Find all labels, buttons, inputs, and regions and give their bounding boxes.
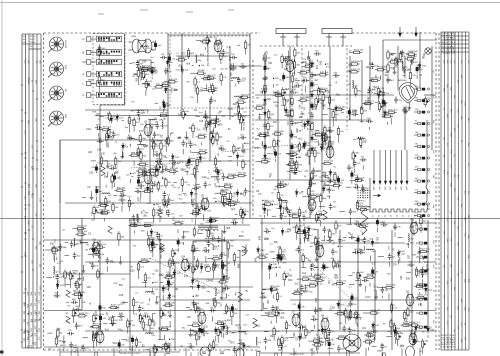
capacitor C91 xyxy=(321,136,325,143)
svg-text:27k: 27k xyxy=(234,218,237,220)
svg-text:1M: 1M xyxy=(23,331,25,334)
resistor R239 xyxy=(76,315,87,317)
svg-text:V14: V14 xyxy=(181,257,186,259)
wire xyxy=(234,84,236,86)
electrolytic capacitor C126 xyxy=(210,216,212,225)
svg-text:C66: C66 xyxy=(187,53,192,55)
wire xyxy=(353,138,356,140)
capacitor C95 xyxy=(317,213,324,217)
svg-text:R152 8n2: R152 8n2 xyxy=(388,109,398,111)
capacitor C15 xyxy=(230,67,237,71)
wire xyxy=(200,142,202,145)
wire xyxy=(140,188,142,190)
svg-text:L48: L48 xyxy=(106,118,109,120)
capacitor C29 xyxy=(95,126,102,130)
resistor R287 xyxy=(409,324,420,326)
resistor R232 xyxy=(365,276,376,278)
svg-text:100: 100 xyxy=(258,133,263,136)
resistor R16 xyxy=(166,81,177,83)
coil L7 xyxy=(234,96,242,97)
wire xyxy=(167,311,169,314)
resistor R142 xyxy=(257,134,268,136)
capacitor C214 xyxy=(347,314,351,321)
wire xyxy=(137,79,139,85)
wire xyxy=(214,265,218,267)
node xyxy=(292,123,293,124)
wire xyxy=(63,335,65,339)
resistor R7 xyxy=(196,86,198,97)
capacitor C219 xyxy=(337,345,341,352)
wire xyxy=(391,52,397,54)
resistor R53 xyxy=(128,198,130,209)
wire xyxy=(273,101,279,103)
wire xyxy=(121,206,123,212)
wire xyxy=(238,122,240,124)
electrolytic capacitor C102 xyxy=(348,108,350,117)
tube V9 xyxy=(406,293,414,308)
svg-text:1M: 1M xyxy=(304,210,306,213)
wire xyxy=(301,333,303,338)
wire xyxy=(419,292,421,295)
wire xyxy=(223,313,226,315)
svg-text:8n2: 8n2 xyxy=(228,57,231,62)
node xyxy=(193,296,194,297)
wire xyxy=(397,46,399,90)
contact group xyxy=(416,228,427,230)
potentiometer R258 xyxy=(72,308,77,319)
svg-text:L71: L71 xyxy=(191,219,193,222)
wire xyxy=(162,165,164,169)
wire xyxy=(319,143,324,145)
wire xyxy=(307,128,309,131)
wire xyxy=(419,258,421,263)
capacitor C141 xyxy=(321,266,328,270)
resistor R188 xyxy=(169,258,171,269)
wire xyxy=(169,345,171,352)
svg-text:B5 Ch: B5 Ch xyxy=(30,36,36,38)
node xyxy=(276,267,277,268)
resistor R122 xyxy=(323,133,325,144)
top right unit outline xyxy=(383,40,437,118)
wire xyxy=(158,338,164,340)
svg-text:220: 220 xyxy=(294,337,297,342)
capacitor C70 xyxy=(329,203,333,210)
wire xyxy=(289,219,291,225)
wire xyxy=(369,341,371,345)
diode D14 xyxy=(116,114,119,122)
svg-text:S37: S37 xyxy=(178,114,183,117)
wire xyxy=(60,344,66,346)
resistor R11 xyxy=(235,101,246,103)
wire xyxy=(128,126,130,133)
resistor R85 xyxy=(165,177,167,188)
svg-text:0,1: 0,1 xyxy=(123,143,127,146)
electrolytic capacitor C40 xyxy=(96,186,98,195)
diode D27 xyxy=(279,204,282,212)
wire xyxy=(138,225,142,227)
ledger header text xyxy=(23,36,36,48)
wire xyxy=(324,181,326,187)
resistor R210 xyxy=(306,230,308,241)
resistor R257 xyxy=(90,326,101,328)
wire xyxy=(317,140,319,146)
wire xyxy=(155,102,158,104)
wire xyxy=(419,247,421,251)
resistor R156 xyxy=(349,63,360,65)
wire xyxy=(376,228,378,233)
wire xyxy=(93,255,95,258)
wire xyxy=(314,159,316,163)
svg-text:220: 220 xyxy=(273,91,278,94)
svg-text:5k6: 5k6 xyxy=(326,136,331,139)
svg-text:R114 330: R114 330 xyxy=(336,106,346,108)
comb pin labels xyxy=(371,215,421,218)
svg-text:L45: L45 xyxy=(390,320,394,325)
contact group xyxy=(414,134,430,136)
resistor R106 xyxy=(293,59,295,70)
resistor R45 xyxy=(137,163,148,165)
waveform zigzag xyxy=(253,318,257,328)
wire xyxy=(70,282,72,288)
diode D11 xyxy=(217,169,220,177)
wire xyxy=(142,170,144,176)
wire xyxy=(118,350,120,353)
wire xyxy=(164,81,166,83)
resistor R105 xyxy=(309,178,311,189)
wire xyxy=(168,34,250,36)
wire xyxy=(111,185,113,189)
wire xyxy=(190,285,193,287)
wire xyxy=(304,285,306,287)
capacitor C18 xyxy=(137,184,144,188)
wire xyxy=(262,303,264,309)
svg-text:L13: L13 xyxy=(312,133,317,136)
resistor R127 xyxy=(331,184,342,186)
capacitor C211 xyxy=(264,337,268,344)
contact group xyxy=(414,122,430,124)
wire xyxy=(148,298,150,301)
coil L26 xyxy=(53,266,54,274)
wire xyxy=(361,116,363,123)
svg-text:100: 100 xyxy=(197,352,199,356)
electrolytic capacitor C161 xyxy=(357,235,359,244)
svg-text:220: 220 xyxy=(240,193,245,196)
resistor R79 xyxy=(160,151,162,162)
wire xyxy=(308,197,310,204)
svg-text:1n5: 1n5 xyxy=(294,283,299,286)
wire xyxy=(197,250,200,252)
wire xyxy=(219,185,222,187)
wire xyxy=(316,253,318,257)
wire xyxy=(57,291,59,298)
wire xyxy=(209,354,211,356)
wire xyxy=(183,193,186,195)
electrolytic capacitor C2 xyxy=(154,40,156,49)
dashed border bottom xyxy=(44,349,261,351)
svg-text:1k2: 1k2 xyxy=(114,167,119,170)
diode D55 xyxy=(264,110,267,118)
wire xyxy=(71,278,74,280)
wire xyxy=(150,238,155,240)
wire xyxy=(187,81,190,83)
resistor R189 xyxy=(207,220,218,222)
wire xyxy=(290,129,292,133)
contact group xyxy=(414,111,430,113)
wire xyxy=(197,233,203,235)
resistor R169 xyxy=(94,246,105,248)
resistor R13 xyxy=(239,96,250,98)
wire xyxy=(184,231,189,233)
diode D31 xyxy=(173,269,176,277)
svg-text:R56 5k6: R56 5k6 xyxy=(160,113,169,115)
wire xyxy=(168,302,170,307)
resistor R171 xyxy=(118,231,120,242)
capacitor C79 xyxy=(309,180,313,187)
resistor R69 xyxy=(140,151,142,162)
svg-text:R216 100: R216 100 xyxy=(316,277,326,279)
wire xyxy=(238,115,240,118)
resistor R61 xyxy=(157,181,159,192)
wire xyxy=(112,174,114,176)
coil L10 xyxy=(162,121,163,129)
resistor R47 xyxy=(148,170,159,172)
wire xyxy=(81,218,83,310)
wire xyxy=(310,279,314,281)
wire xyxy=(152,312,156,314)
coil L29 xyxy=(277,255,285,256)
coil L20 xyxy=(402,61,403,69)
wire xyxy=(168,64,170,68)
capacitor C57 xyxy=(219,147,226,151)
wire xyxy=(164,156,167,158)
resistor R260 xyxy=(225,304,227,315)
capacitor C22 xyxy=(127,136,134,140)
wire xyxy=(281,65,283,69)
capacitor C199 xyxy=(220,322,224,329)
resistor R4 xyxy=(146,69,157,71)
electrolytic capacitor C150 xyxy=(269,263,271,272)
potentiometer R213 xyxy=(283,271,288,282)
diode D44 xyxy=(397,250,400,258)
diode D15 xyxy=(190,190,193,198)
ground xyxy=(150,318,154,323)
wire xyxy=(394,232,396,237)
diode D39 xyxy=(307,225,310,233)
capacitor C155 xyxy=(260,295,267,299)
capacitor C8 xyxy=(181,67,185,74)
ground xyxy=(374,295,378,300)
capacitor C74 xyxy=(279,181,283,188)
svg-text:12k: 12k xyxy=(415,86,418,88)
diode D18 xyxy=(335,105,338,113)
wire xyxy=(148,169,151,171)
wire xyxy=(129,218,131,350)
wire xyxy=(149,328,151,335)
node xyxy=(213,248,214,249)
potentiometer R77 xyxy=(182,109,187,120)
capacitor C216 xyxy=(371,329,378,333)
coil L16 xyxy=(149,119,157,120)
diode D24 xyxy=(295,189,298,197)
node xyxy=(152,282,153,283)
wire xyxy=(112,316,115,318)
capacitor C116 xyxy=(55,274,59,281)
coil L6 xyxy=(231,78,239,79)
wire xyxy=(192,209,194,214)
wire xyxy=(264,56,266,161)
svg-text:6k8: 6k8 xyxy=(381,99,384,104)
wire xyxy=(143,76,145,79)
wire xyxy=(322,114,328,116)
wire xyxy=(160,255,162,259)
wire xyxy=(405,106,407,110)
coil L34 xyxy=(92,331,93,339)
capacitor C83 xyxy=(294,84,301,88)
wire xyxy=(245,51,247,55)
wire xyxy=(302,264,304,268)
tube V11 xyxy=(326,145,334,160)
line output unit edges xyxy=(370,120,428,209)
resistor R65 xyxy=(105,196,107,207)
diode D3 xyxy=(188,263,191,271)
resistor R50 xyxy=(114,189,125,191)
svg-text:10k: 10k xyxy=(306,57,308,60)
svg-text:R200 39p: R200 39p xyxy=(166,275,176,277)
capacitor C115 xyxy=(59,244,63,251)
capacitor C103 xyxy=(351,113,358,117)
svg-text:2n2: 2n2 xyxy=(313,106,318,109)
wire xyxy=(158,213,163,215)
wire xyxy=(95,332,97,336)
potentiometer R72 xyxy=(242,209,247,220)
tube V2 xyxy=(286,59,294,74)
wire xyxy=(140,191,142,198)
resistor R99 xyxy=(294,47,296,58)
svg-text:5k6: 5k6 xyxy=(309,291,312,293)
resistor R73 xyxy=(142,190,153,192)
wire xyxy=(45,249,49,251)
wire xyxy=(220,304,222,307)
wire xyxy=(93,216,95,219)
wire xyxy=(272,215,276,217)
wire xyxy=(157,173,159,175)
pin strip B xyxy=(97,50,122,56)
coil L25 xyxy=(74,238,75,246)
resistor R148 xyxy=(375,69,386,71)
svg-text:R288 100: R288 100 xyxy=(339,335,349,337)
diode D34 xyxy=(150,228,153,236)
svg-text:R230 27k: R230 27k xyxy=(417,284,427,286)
capacitor C176 xyxy=(69,342,73,349)
diode D22 xyxy=(329,169,332,177)
wire xyxy=(82,265,84,269)
capacitor C241 xyxy=(377,92,381,99)
wire xyxy=(165,146,167,151)
resistor R195 xyxy=(227,240,229,251)
diode D61 xyxy=(311,134,314,142)
wire xyxy=(349,310,351,317)
svg-text:B20: B20 xyxy=(288,280,293,282)
wire xyxy=(325,185,331,187)
resistor R2 xyxy=(194,76,196,87)
svg-text:1M: 1M xyxy=(415,97,418,99)
wire xyxy=(195,115,199,117)
wire xyxy=(64,255,69,257)
resistor R209 xyxy=(302,253,304,264)
bridge circle xyxy=(205,266,211,272)
wire xyxy=(289,46,291,180)
resistor R193 xyxy=(213,262,215,273)
svg-text:4μ7: 4μ7 xyxy=(212,302,215,307)
resistor R88 xyxy=(129,154,140,156)
svg-text:220: 220 xyxy=(269,118,272,120)
wire xyxy=(215,264,217,267)
wire xyxy=(314,229,318,231)
wire xyxy=(309,189,311,195)
svg-text:12k: 12k xyxy=(62,229,65,231)
resistor R191 xyxy=(147,236,149,247)
resistor R215 xyxy=(257,256,268,258)
svg-text:1M: 1M xyxy=(267,135,270,137)
wire xyxy=(174,262,176,350)
node xyxy=(399,251,400,252)
tube V17 xyxy=(316,244,324,259)
ground xyxy=(155,300,159,305)
diode D28 xyxy=(418,62,421,70)
node xyxy=(153,204,154,205)
wire xyxy=(381,352,383,356)
svg-text:L95: L95 xyxy=(97,147,102,151)
capacitor C65 xyxy=(222,174,226,181)
svg-text:L89: L89 xyxy=(103,212,108,216)
svg-text:C95: C95 xyxy=(200,87,203,92)
left margin ledger lines xyxy=(22,34,41,348)
electrolytic capacitor C223 xyxy=(264,63,266,72)
resistor R275 xyxy=(312,344,323,346)
svg-text:56k: 56k xyxy=(415,143,418,145)
wire xyxy=(133,128,135,132)
resistor R86 xyxy=(216,132,218,143)
capacitor C47 xyxy=(189,141,193,148)
node xyxy=(159,327,160,328)
wire xyxy=(142,282,147,284)
diode D10 xyxy=(171,153,174,161)
wire xyxy=(360,120,364,122)
wire xyxy=(240,125,242,130)
wire xyxy=(145,174,149,176)
wire xyxy=(53,256,55,263)
diode D45 xyxy=(214,326,217,334)
pin strip U xyxy=(97,92,122,98)
wire xyxy=(328,350,330,356)
wire xyxy=(194,207,198,209)
resistor R254 xyxy=(190,324,201,326)
wire xyxy=(173,169,175,175)
svg-text:56k: 56k xyxy=(281,181,284,183)
ground xyxy=(106,164,110,169)
capacitor C10 xyxy=(230,56,237,60)
wire xyxy=(159,245,161,250)
wire xyxy=(211,316,213,322)
resistor R52 xyxy=(109,111,111,122)
connector plug N xyxy=(87,37,91,41)
capacitor C167 xyxy=(358,251,365,255)
resistor R78 xyxy=(112,202,114,213)
wire xyxy=(356,184,358,189)
wire xyxy=(301,266,306,268)
wire xyxy=(263,307,267,309)
resistor R32 xyxy=(197,152,208,154)
